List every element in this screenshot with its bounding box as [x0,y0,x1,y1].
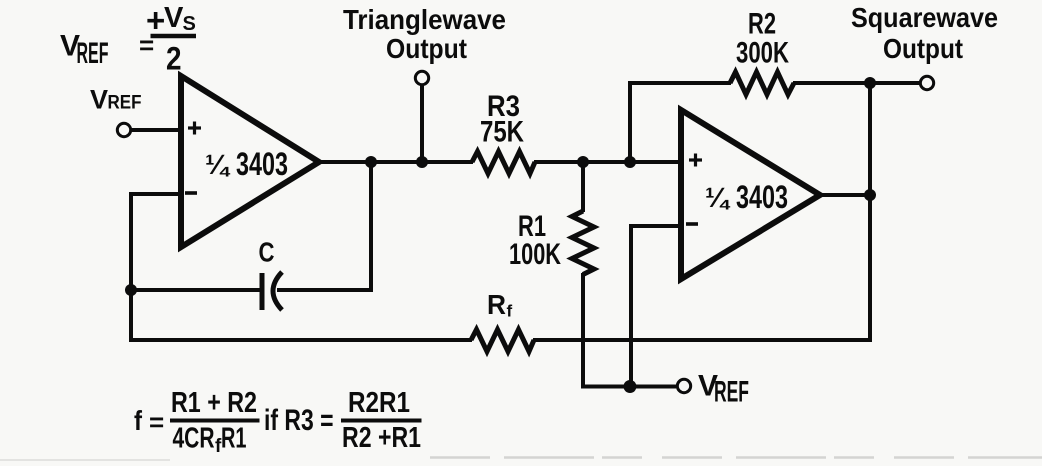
wire U2 output [818,193,872,197]
wire capacitor left [131,288,262,292]
svg-text:3403: 3403 [736,179,788,215]
wire U1 minus feedback [131,194,181,342]
wire R3 to U2 + input [534,160,680,164]
resistor R3 [472,152,535,174]
svg-text:Output: Output [883,33,963,64]
svg-text:3403: 3403 [236,146,288,182]
wire VREF to op-amp + input [131,128,181,132]
svg-text:S: S [183,13,196,35]
svg-text:=: = [149,407,164,437]
wire U2 minus input [631,226,680,387]
svg-text:+: + [146,2,165,39]
scan artifact bottom line [0,458,1042,461]
svg-text:REF: REF [108,93,142,114]
node R1 top junction [577,156,589,168]
svg-text:¼: ¼ [205,149,231,180]
op-amp U2 [681,110,820,279]
label VREF input [90,85,142,115]
svg-text:Output: Output [386,33,467,64]
terminal squarewave output circle [920,76,933,89]
svg-text:V: V [164,2,184,34]
svg-text:Squarewave: Squarewave [851,2,998,33]
capacitor C [262,272,282,310]
label R3 75K [480,90,524,149]
svg-text:Trianglewave: Trianglewave [343,4,506,35]
svg-text:R2 +R1: R2 +R1 [342,422,421,454]
wire capacitor right [277,164,371,290]
wire U2 output vertical [868,83,872,342]
svg-text:R1 + R2: R1 + R2 [171,387,257,419]
label Rf [487,289,513,321]
wire R2 left link vertical [628,83,632,162]
svg-text:300K: 300K [736,37,789,70]
op-amp U1 minus pin [185,191,197,195]
op-amp U2 minus pin [686,222,698,226]
label R2 300K [736,8,789,70]
label VREF = +VS/2 [60,2,196,77]
svg-text:R1: R1 [221,423,247,455]
wire R2 top horizontal left [628,81,731,85]
op-amp U2 plus pin [689,154,702,167]
label C [259,237,275,268]
svg-text:R2R1: R2R1 [348,387,410,419]
svg-text:REF: REF [77,37,109,70]
wire R1 bottom to VREF terminal [581,385,676,389]
wire R2 top horizontal right [793,81,920,85]
wire trianglewave stub [420,85,424,162]
resistor R1 [572,162,594,389]
wire Rf left [129,338,472,342]
svg-text:4CR: 4CR [173,423,215,455]
svg-text:f: f [134,405,143,436]
svg-text:C: C [259,237,275,268]
label frequency formula [134,387,422,457]
label R1 100K [509,210,561,271]
wire Rf right [533,338,872,342]
node VREF bottom junction [624,380,637,393]
node U1 output junction [365,156,377,168]
svg-text:f: f [507,302,513,321]
label 1/4 3403 (U1) [205,146,288,182]
node R2 link junction [624,156,636,168]
node squarewave junction [864,77,876,89]
label Squarewave Output [851,2,998,64]
op-amp U1 plus pin [188,122,201,135]
svg-text:¼: ¼ [705,182,731,213]
op-amp U1 [181,76,319,247]
resistor Rf [471,330,534,352]
wire U1 output [317,160,473,164]
svg-text:R: R [487,289,506,320]
svg-text:2: 2 [166,41,182,77]
terminal trianglewave output circle [415,71,428,84]
resistor R2 [730,72,794,95]
svg-text:100K: 100K [509,238,561,271]
label VREF bottom [698,370,749,409]
svg-text:75K: 75K [480,116,524,149]
terminal VREF bottom circle [677,379,690,392]
svg-text:REF: REF [714,376,749,409]
node trianglewave junction [416,156,428,168]
node U2 output junction [864,189,876,201]
svg-text:V: V [90,85,108,115]
label 1/4 3403 (U2) [705,179,788,215]
svg-text:if R3 =: if R3 = [264,404,334,437]
terminal VREF input circle [117,123,130,136]
label Trianglewave Output [343,4,506,64]
node capacitor junction [125,284,137,296]
